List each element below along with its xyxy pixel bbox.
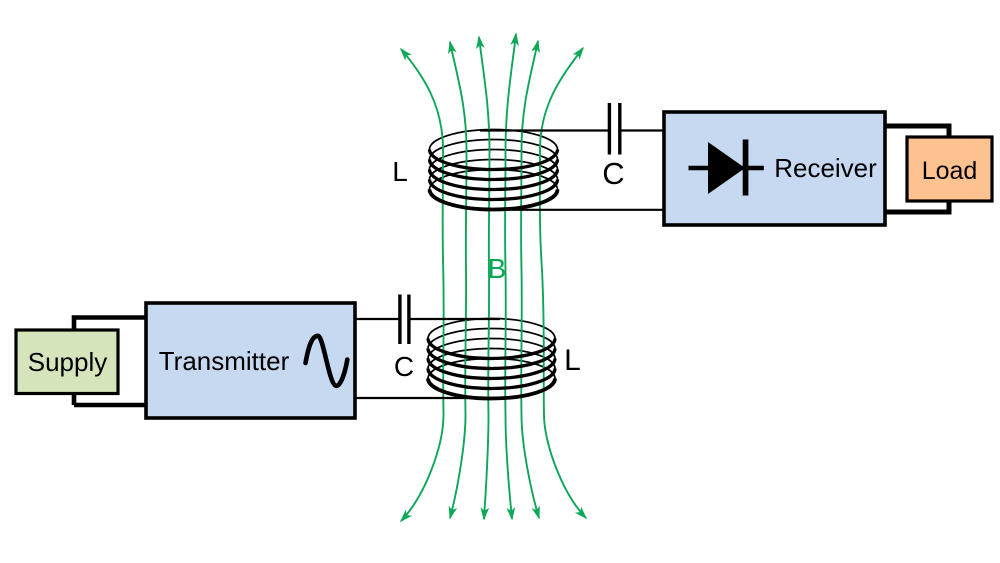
transmitter box <box>146 303 355 418</box>
field line B4 <box>505 34 516 519</box>
coil L1 back (thin upper arcs) <box>430 130 558 190</box>
svg-text:Transmitter: Transmitter <box>159 346 290 376</box>
field line B5 <box>521 41 539 518</box>
diode D1 <box>689 166 764 170</box>
sine wave source symbol <box>306 336 348 386</box>
svg-text:B: B <box>488 253 507 284</box>
coil L2 back (thin upper arcs) <box>428 319 555 379</box>
svg-text:L: L <box>564 344 581 377</box>
wire top circuit upper (coil L1 to capacitor C1 to receiver) <box>480 129 608 131</box>
wire top circuit lower (coil L1 to receiver) <box>490 209 666 211</box>
supply bracket wires <box>74 318 148 406</box>
field line B3 <box>479 37 490 519</box>
coil L2 front (bold lower arcs) <box>428 339 555 399</box>
load box <box>907 137 992 201</box>
svg-text:C: C <box>394 351 414 382</box>
capacitor C2 (bottom) <box>398 295 401 345</box>
wire bottom circuit upper (transmitter to capacitor C2 to coil L2) <box>354 318 399 320</box>
capacitor C1 (top) <box>608 103 611 155</box>
coil L1 front (bold lower arcs) <box>430 150 558 210</box>
svg-text:Load: Load <box>922 157 978 185</box>
svg-text:Receiver: Receiver <box>774 153 877 183</box>
receiver box <box>664 112 885 225</box>
supply box <box>16 330 118 394</box>
svg-text:Supply: Supply <box>28 347 108 377</box>
svg-text:L: L <box>392 156 408 187</box>
field line B2 <box>450 42 467 518</box>
field line B6 <box>540 48 586 518</box>
load bracket wires <box>883 126 949 212</box>
svg-text:C: C <box>602 156 624 191</box>
wire bottom circuit lower (transmitter to coil L2) <box>354 397 492 399</box>
field line B1 <box>401 49 444 521</box>
